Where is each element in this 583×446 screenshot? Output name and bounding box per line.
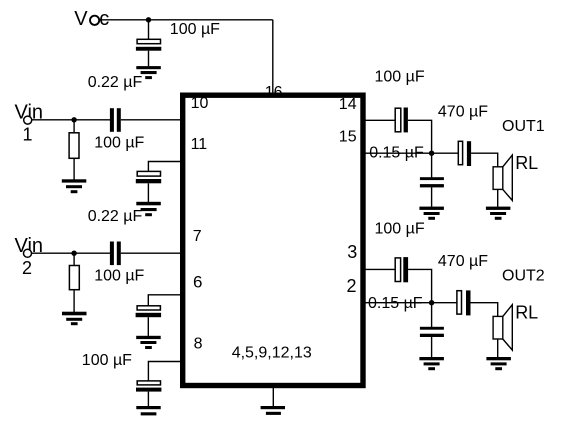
wire R1 to ground bbox=[73, 158, 75, 179]
wire Vcc node to C1 bbox=[148, 20, 150, 40]
svg-text:100 µF: 100 µF bbox=[170, 21, 220, 38]
terminal circle Vcc bbox=[90, 16, 99, 25]
svg-text:100 µF: 100 µF bbox=[375, 221, 425, 238]
junction Vin2 node bbox=[71, 251, 76, 256]
wire pin 3 to C10 bbox=[366, 268, 396, 270]
svg-text:0.15 µF: 0.15 µF bbox=[369, 144, 424, 161]
capacitor C9 100uF shunt bbox=[420, 177, 444, 187]
ground G2 bbox=[62, 179, 87, 193]
wire OUT2 node to C12 bbox=[431, 303, 433, 327]
svg-text:100 µF: 100 µF bbox=[375, 68, 425, 85]
terminal circle Vin1 bbox=[24, 116, 32, 124]
wire LS1 to ground bbox=[497, 189, 499, 206]
junction Vin1 node bbox=[71, 117, 76, 122]
svg-text:100 µF: 100 µF bbox=[82, 352, 132, 369]
svg-text:1: 1 bbox=[23, 124, 33, 144]
speaker LS1 bbox=[493, 155, 512, 200]
ground G3 bbox=[136, 202, 161, 216]
wire pin 2 to C11 bbox=[366, 302, 457, 304]
wire pin 11 to C3 bbox=[148, 162, 182, 172]
svg-text:0.22 µF: 0.22 µF bbox=[88, 208, 143, 225]
svg-text:6: 6 bbox=[193, 273, 202, 292]
wire pin 6 to C5 bbox=[148, 295, 182, 306]
capacitor C12 shunt bbox=[420, 327, 444, 337]
capacitor C6 100uF (electrolytic) bbox=[136, 381, 161, 392]
capacitor C3 0.22uF (electrolytic) bbox=[136, 171, 161, 183]
label Vcc bbox=[74, 8, 109, 30]
wire LS2 to ground bbox=[497, 339, 499, 357]
wire OUT1 node to C9 bbox=[431, 153, 433, 177]
resistor R1 bbox=[69, 133, 79, 159]
IC U1 body bbox=[183, 95, 363, 385]
wire pin 15 to C8 bbox=[366, 152, 459, 154]
wire C10 to OUT2 node bbox=[408, 269, 432, 302]
junction OUT1 node bbox=[429, 151, 434, 156]
wire C2 to pin 10 bbox=[121, 119, 182, 121]
svg-text:RL: RL bbox=[515, 153, 538, 173]
wire C12 to ground bbox=[431, 337, 433, 357]
wire C1 to ground bbox=[148, 51, 150, 67]
junction Vcc node bbox=[146, 17, 151, 22]
svg-text:3: 3 bbox=[347, 242, 357, 262]
svg-text:2: 2 bbox=[22, 258, 32, 278]
capacitor C5 (electrolytic) bbox=[136, 306, 162, 317]
svg-text:100 µF: 100 µF bbox=[94, 135, 144, 152]
svg-text:c: c bbox=[99, 8, 109, 30]
svg-text:11: 11 bbox=[191, 136, 208, 153]
wire C9 to ground bbox=[431, 187, 433, 206]
svg-text:16: 16 bbox=[265, 84, 283, 101]
svg-text:470 µF: 470 µF bbox=[438, 253, 488, 270]
terminal circle Vin2 bbox=[24, 249, 32, 257]
speaker LS2 bbox=[493, 305, 512, 350]
wire C7 to OUT1 node bbox=[408, 120, 432, 153]
ground G11 bbox=[419, 357, 444, 370]
capacitor C10 (electrolytic) bbox=[395, 257, 408, 282]
wire C3 to ground bbox=[147, 183, 149, 202]
svg-text:470 µF: 470 µF bbox=[438, 103, 488, 120]
capacitor C8 470uF (electrolytic) bbox=[458, 141, 471, 166]
ground G5 bbox=[136, 336, 161, 349]
svg-text:8: 8 bbox=[194, 336, 203, 353]
wire C4 to pin 7 bbox=[121, 252, 182, 254]
wire C11 to speaker LS2 bbox=[471, 303, 498, 317]
svg-text:OUT2: OUT2 bbox=[502, 268, 545, 285]
capacitor C7 100uF (electrolytic) bbox=[395, 108, 408, 133]
ground G7 bbox=[261, 406, 285, 415]
capacitor C1 100uF (electrolytic) bbox=[136, 39, 161, 50]
ground stem IC bbox=[272, 388, 274, 406]
svg-text:10: 10 bbox=[191, 95, 209, 112]
wire Vin1 to C2 bbox=[32, 119, 110, 121]
capacitor C11 470uF (electrolytic) bbox=[457, 290, 471, 315]
svg-text:RL: RL bbox=[515, 303, 538, 323]
wire C6 to ground bbox=[147, 392, 149, 407]
wire Vcc rail bbox=[99, 19, 273, 21]
svg-text:V: V bbox=[74, 8, 88, 30]
label Vin 2 bbox=[15, 235, 44, 278]
wire Vin2 to C4 bbox=[31, 252, 110, 254]
svg-text:7: 7 bbox=[193, 228, 202, 245]
ground G9 bbox=[419, 207, 444, 220]
junction OUT2 node bbox=[429, 300, 434, 305]
svg-text:0.15 µF: 0.15 µF bbox=[368, 295, 423, 312]
wire C5 to ground bbox=[147, 317, 149, 336]
ground G1 bbox=[136, 66, 161, 79]
ground G4 bbox=[62, 312, 87, 326]
ground G6 bbox=[136, 406, 160, 415]
svg-text:15: 15 bbox=[339, 128, 357, 145]
ground G10 bbox=[486, 357, 511, 370]
label Vin 1 bbox=[15, 101, 44, 144]
capacitor C2 100uF input 1 bbox=[110, 108, 121, 132]
svg-text:0.22 µF: 0.22 µF bbox=[88, 74, 143, 91]
resistor R2 bbox=[69, 266, 79, 290]
svg-text:14: 14 bbox=[339, 96, 357, 113]
wire Vcc drop to pin 16 bbox=[272, 20, 274, 95]
svg-text:100 µF: 100 µF bbox=[94, 267, 144, 284]
svg-text:2: 2 bbox=[347, 276, 357, 296]
wire pin 8 to C6 bbox=[148, 362, 182, 382]
capacitor C4 100uF input 2 bbox=[110, 242, 121, 266]
wire pin 14 to C7 bbox=[366, 119, 396, 121]
svg-text:4,5,9,12,13: 4,5,9,12,13 bbox=[232, 345, 312, 362]
wire R2 to ground bbox=[73, 290, 75, 312]
svg-text:OUT1: OUT1 bbox=[502, 118, 545, 135]
wire Vin1 node to R1 bbox=[73, 120, 75, 133]
ground G8 bbox=[486, 207, 511, 220]
wire C8 to speaker LS1 bbox=[471, 153, 498, 167]
wire Vin2 node to R2 bbox=[73, 253, 75, 266]
